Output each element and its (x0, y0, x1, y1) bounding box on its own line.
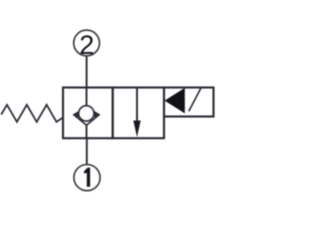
poppet seat right ear (93, 110, 100, 118)
solenoid proportional slash (189, 88, 201, 111)
poppet seat left ear (73, 110, 80, 118)
solenoid triangle (filled, pointing left) (165, 88, 185, 114)
poppet seat (V seat) in box 1 (73, 114, 100, 125)
flow arrow in box 2 (open path, pointing down) (136, 88, 138, 125)
wire: port 1 line from valve body to circle 1 (86, 138, 88, 165)
port circle 2 (74, 30, 100, 56)
valve body position box 2 (open position) (113, 88, 164, 139)
poppet ball (circle) in box 1 (79, 106, 94, 121)
wire: flow line inside box 1 (bottom segment from seat to port 1) (86, 124, 88, 139)
solenoid box (164, 88, 214, 117)
spring (return spring, left of valve body) (1, 105, 63, 122)
valve body position box 1 (closed/check position) (63, 88, 113, 139)
wire: port 2 line from circle 2 to valve body (86, 56, 88, 88)
svg-text:2: 2 (79, 30, 94, 60)
wire: flow line inside box 1 (top segment to poppet) (86, 88, 88, 108)
port label 1 (Arial-style numeral drawn as path) (84, 168, 90, 187)
port circle 1 (74, 165, 100, 191)
